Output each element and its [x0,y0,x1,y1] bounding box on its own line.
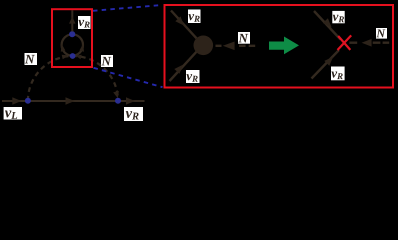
green block arrow [269,37,299,55]
label nu_R upper-left of blob [188,10,201,24]
label nu_L bottom left [4,107,22,120]
label nu_R top of loop [78,16,91,29]
highlight box: small red rectangle [52,9,92,67]
arrowhead on lower-left nu_R line [174,65,183,74]
magnified view box: big red rectangle [165,5,394,88]
arrowhead on right arc into dot2 [113,91,119,98]
label nu_R top (right panel) [332,11,344,23]
arrowhead on left arc into vertex B [62,55,69,60]
arrowhead on upper-left nu_R line [175,16,184,25]
propagator: dashed N semicircle from dot1 over B to dot2 [28,56,118,101]
label N (right panel) [376,28,387,39]
dash segments of N line (right panel) [373,42,390,44]
label N right of blob [238,32,250,44]
label N on right arc [101,55,113,67]
blob: effective vertex [194,36,214,56]
arrowhead pointing left on dashed N line [223,42,235,51]
wire: upper-left nu_R line into blob [171,11,197,39]
node: loop top vertex T [69,31,75,37]
arrowhead pointing left on dashed N line (right panel) [362,39,372,47]
label nu_R bottom (right panel) [331,67,345,81]
arrowhead on upper-left line (right panel) [323,18,332,27]
arrowhead A3 on bottom line [126,97,135,104]
arrowhead A1 on bottom line [12,97,21,104]
connector: blue dashed line bottom [94,68,163,87]
wire: external nu_R line going up from T [71,10,73,31]
loop: nu_R circle [62,34,83,55]
node: loop bottom vertex B [70,53,76,59]
wire: lower-left nu_R line into blob [170,52,197,81]
mass insertion: red X cross [338,35,352,50]
connector: blue dashed line top [93,5,162,11]
label nu_R lower-left of blob [186,70,200,83]
dash segments of N line [239,45,255,47]
arrowhead pointing up on external nu_R line [69,17,76,24]
arrowhead on loop left side pointing up [61,44,66,52]
propagator: dashed N line right of blob [216,45,222,47]
arrowhead A2 on bottom line [66,97,75,104]
propagator: dashed N line right of X [349,42,357,44]
label N on left arc [25,53,38,65]
arrowhead on lower-left line (right panel) [324,57,333,66]
arrowhead on right arc into vertex B [76,55,82,59]
node: dot2 nu_R vertex [115,98,121,104]
node: dot1 nu_L vertex [25,98,31,104]
arrowhead on loop right side pointing up [79,44,84,52]
wire: upper-left nu_R line into X vertex [314,11,341,40]
label nu_R bottom right [124,107,143,121]
wire: lower-left nu_R line into X vertex [312,50,340,79]
wire: bottom fermion line nu_L to nu_R [2,100,145,102]
